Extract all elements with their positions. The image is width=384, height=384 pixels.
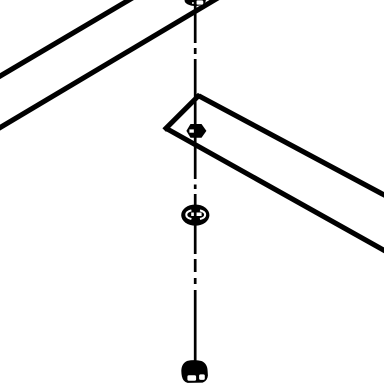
bar 2 lower edge	[166, 128, 384, 253]
centerline (vertical dash-dot, x=195.2)	[194, 0, 197, 362]
washer center white dash	[191, 213, 201, 217]
hole ellipse in bar 1 (top, partially cut off)	[185, 0, 206, 6]
washer / flanged nut	[181, 205, 209, 226]
washer left inner arc	[186, 210, 191, 219]
bar 1 upper edge (top-left strip)	[0, 0, 134, 79]
bar 2 end edge	[164, 95, 200, 131]
hex hole in bar 2	[186, 124, 206, 138]
bar 2 outline (right strip parallelogram)	[164, 95, 384, 254]
bar 2 upper edge	[199, 96, 384, 198]
washer right inner arc	[200, 210, 205, 219]
bolt head	[181, 360, 208, 383]
bar 1 lower edge	[0, 0, 222, 130]
